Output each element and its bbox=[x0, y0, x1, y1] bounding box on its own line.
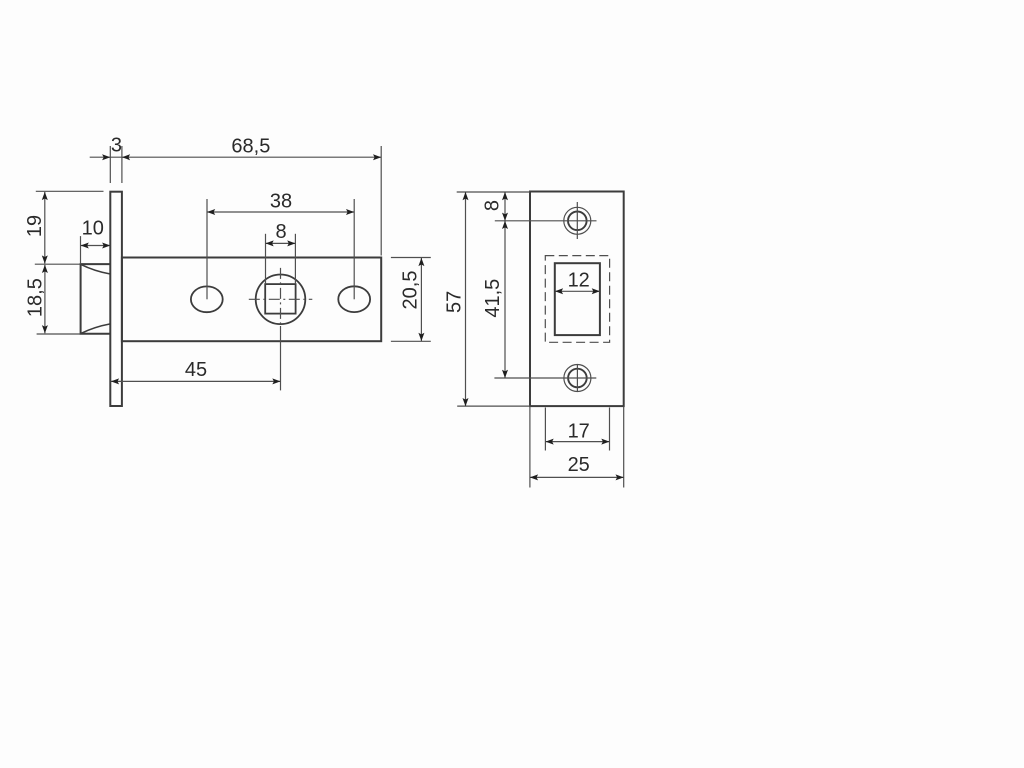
ext body right top bbox=[380, 146, 382, 256]
extension 45 below circle bbox=[280, 326, 282, 390]
svg-text:10: 10 bbox=[82, 218, 104, 240]
dashed pocket rect bbox=[545, 256, 609, 343]
ext faceplate left top bbox=[109, 146, 111, 183]
ext 25 right bbox=[623, 407, 625, 488]
spindle square bbox=[265, 284, 295, 314]
upper hole centerline horizontal bbox=[495, 220, 597, 222]
svg-text:3: 3 bbox=[111, 135, 122, 157]
ext 17 left bbox=[544, 408, 546, 451]
dim line 25 bbox=[530, 476, 624, 478]
arrow 8 right bbox=[287, 240, 295, 246]
arrow 41.5 up bbox=[502, 221, 508, 229]
arrow 8 left bbox=[266, 240, 274, 246]
arrow 17 left bbox=[546, 439, 554, 445]
svg-text:41,5: 41,5 bbox=[482, 279, 504, 318]
svg-text:19: 19 bbox=[24, 215, 46, 237]
arrow 17 right bbox=[601, 439, 609, 445]
arrow 18.5 down bbox=[42, 325, 48, 333]
upper hole crosshair vertical bbox=[576, 202, 578, 239]
ext 20.5 bottom bbox=[391, 340, 431, 342]
arrow 25 right bbox=[616, 474, 624, 480]
svg-text:17: 17 bbox=[568, 420, 590, 442]
strike plate outline bbox=[530, 192, 624, 407]
ext square right up bbox=[294, 234, 296, 284]
dim line 18.5 bbox=[44, 265, 46, 334]
arrow 68.5 right-pointing at body right bbox=[373, 154, 381, 160]
svg-text:57: 57 bbox=[443, 291, 465, 313]
ext 10 left vertical bbox=[80, 236, 82, 264]
ext left oval up bbox=[206, 199, 208, 299]
svg-text:45: 45 bbox=[185, 359, 207, 381]
arrow 18.5 up bbox=[42, 265, 48, 273]
dim line 19 bbox=[44, 192, 46, 264]
ext 18.5 bottom horizontal bbox=[37, 333, 81, 335]
arrowheads left view bbox=[42, 154, 425, 384]
svg-text:8: 8 bbox=[276, 221, 287, 243]
svg-text:38: 38 bbox=[270, 191, 292, 213]
spindle circle bbox=[256, 275, 306, 325]
arrow 20.5 up bbox=[418, 258, 424, 266]
arrow 10 left bbox=[81, 243, 89, 249]
ext faceplate right top bbox=[121, 146, 123, 183]
arrow 19 up bbox=[42, 192, 48, 200]
svg-text:12: 12 bbox=[568, 269, 590, 291]
centerline horizontal bbox=[249, 298, 312, 300]
arrow 3 right-pointing at faceplate left bbox=[102, 154, 110, 160]
arrow 38 left bbox=[207, 209, 215, 215]
ext 19 top horizontal bbox=[36, 190, 104, 192]
arrow 20.5 down bbox=[418, 333, 424, 341]
ext square left up bbox=[265, 234, 267, 284]
left oval hole bbox=[191, 286, 223, 312]
ext plate top left bbox=[457, 191, 530, 193]
bolt top bevel curve bbox=[81, 264, 111, 274]
svg-text:8: 8 bbox=[482, 200, 504, 211]
arrow 19 down bbox=[42, 255, 48, 263]
centerline vertical bbox=[280, 268, 282, 326]
lower hole centerline horizontal bbox=[494, 377, 596, 379]
svg-text:25: 25 bbox=[568, 454, 590, 476]
ext 17 right bbox=[609, 408, 611, 451]
arrow 10 right bbox=[102, 243, 110, 249]
dim line 3 / 68.5 bbox=[90, 156, 382, 158]
upper screw hole inner bbox=[568, 212, 587, 231]
upper screw hole outer bbox=[564, 207, 591, 234]
lower screw hole outer bbox=[564, 365, 591, 392]
dim line 38 bbox=[207, 211, 354, 213]
arrow 25 left bbox=[530, 474, 538, 480]
dim line 17 bbox=[546, 441, 610, 443]
arrow 45 right bbox=[272, 378, 280, 384]
arrow 8r up bbox=[502, 192, 508, 200]
arrow 57 up bbox=[463, 192, 469, 200]
arrowheads right view bbox=[463, 192, 624, 480]
lower hole crosshair vertical bbox=[576, 365, 578, 392]
arrow 12 right bbox=[592, 288, 600, 294]
dim line 57 bbox=[465, 192, 467, 406]
arrow 8r down bbox=[502, 213, 508, 221]
arrow 41.5 down bbox=[502, 370, 508, 378]
latch opening inner rect bbox=[555, 263, 600, 335]
svg-text:68,5: 68,5 bbox=[231, 135, 270, 157]
dim line 8/41.5 bbox=[504, 192, 506, 378]
faceplate bbox=[110, 192, 122, 406]
arrow 45 left bbox=[111, 378, 119, 384]
bolt bottom bevel curve bbox=[81, 324, 111, 334]
svg-text:18,5: 18,5 bbox=[25, 278, 47, 317]
latch body bbox=[122, 258, 381, 342]
ext 25 left bbox=[529, 407, 531, 488]
arrow 3/68.5 left-pointing at faceplate right bbox=[122, 154, 130, 160]
right oval hole bbox=[338, 286, 370, 312]
lower screw hole inner bbox=[568, 369, 587, 388]
dim line 20.5 bbox=[420, 258, 422, 341]
labels right view bbox=[443, 200, 590, 476]
ext 20.5 top bbox=[391, 257, 431, 259]
bolt outline bbox=[81, 264, 111, 334]
ext plate bottom left bbox=[457, 405, 530, 407]
dim line 10 bbox=[81, 245, 111, 247]
svg-text:20,5: 20,5 bbox=[400, 271, 422, 310]
dim line 8 bbox=[266, 242, 296, 244]
dim line 12 bbox=[555, 290, 600, 292]
arrow 57 down bbox=[463, 398, 469, 406]
arrow 38 right bbox=[346, 209, 354, 215]
labels left view bbox=[24, 135, 422, 382]
dim line 45 bbox=[111, 380, 281, 382]
ext right oval up bbox=[353, 199, 355, 299]
ext 19/18.5 middle horizontal bbox=[35, 263, 81, 265]
arrow 12 left bbox=[555, 288, 563, 294]
